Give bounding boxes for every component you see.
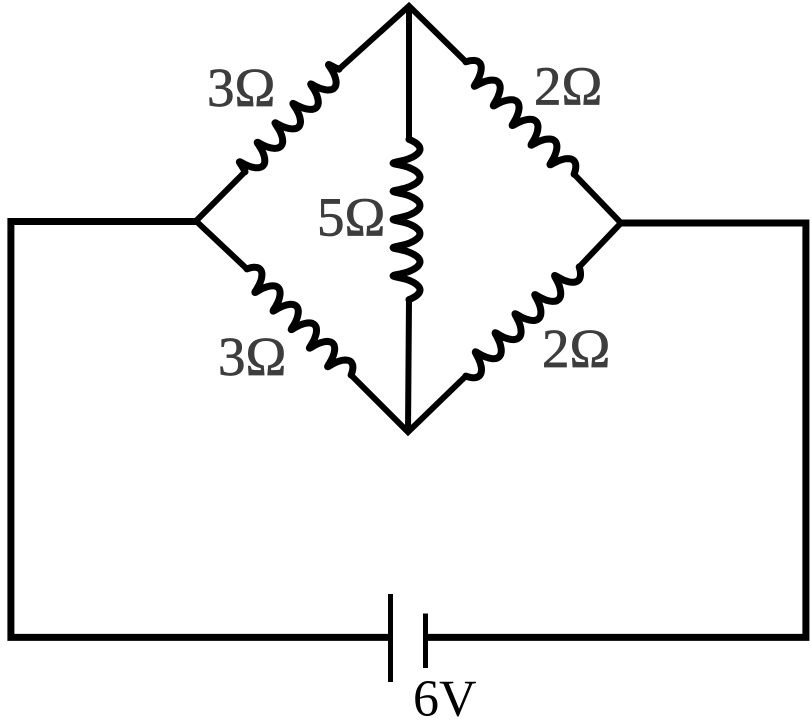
resistor 3ohm bottom-left squiggle xyxy=(247,267,353,375)
resistor 5ohm middle squiggle xyxy=(393,139,420,299)
svg-text:6V: 6V xyxy=(413,671,477,723)
wire: bottom-right resistor to right node xyxy=(579,223,621,267)
wire: bottom node joining bottom-left and bottom-right resistors xyxy=(351,375,466,432)
resistor 2ohm top-right squiggle xyxy=(466,60,576,174)
wire: apex joining top-left and top-right resistors xyxy=(339,6,466,69)
battery long plate xyxy=(388,594,393,682)
resistor 2ohm bottom-right squiggle xyxy=(466,267,581,378)
svg-text:2Ω: 2Ω xyxy=(542,318,610,379)
battery short plate xyxy=(423,614,428,669)
resistor 3ohm top-left squiggle xyxy=(239,65,339,172)
svg-text:5Ω: 5Ω xyxy=(317,187,385,248)
svg-text:3Ω: 3Ω xyxy=(207,57,275,118)
wire: apex to middle resistor xyxy=(406,6,412,139)
svg-text:3Ω: 3Ω xyxy=(218,326,286,387)
svg-text:2Ω: 2Ω xyxy=(534,56,602,117)
wire: left node to bottom-left resistor xyxy=(196,221,247,269)
wire: left node to top-left resistor xyxy=(196,172,245,221)
wire: outer loop right (battery to right rail, up, to right node) xyxy=(428,223,806,637)
wire: outer loop left (left node to left rail, down, bottom run to battery) xyxy=(11,222,388,638)
wire: middle resistor to bottom node xyxy=(408,300,409,432)
wire: top-right resistor to right node xyxy=(574,174,621,223)
